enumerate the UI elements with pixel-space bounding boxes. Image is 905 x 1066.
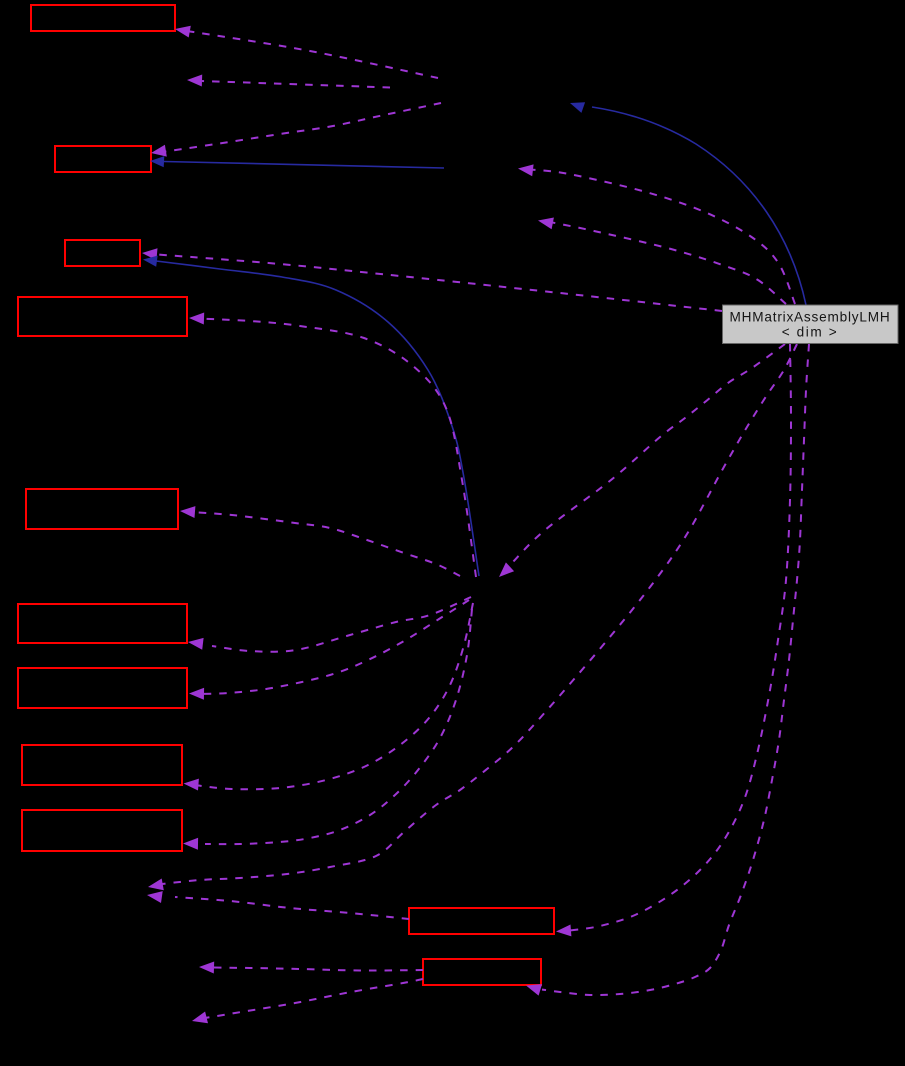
edge to B6: [188, 597, 471, 652]
edge to hidden node LA2: [147, 891, 409, 919]
node box B10: [409, 908, 554, 934]
edge to B4: [189, 313, 476, 578]
edge to B5: [180, 506, 460, 576]
svg-text:MHMatrixAssemblyLMH: MHMatrixAssemblyLMH: [730, 310, 891, 325]
edge to B2 dashed: [151, 103, 441, 157]
edge to B7: [189, 600, 469, 700]
node box B2: [55, 146, 151, 172]
edge to B10: [556, 344, 791, 936]
edge to hidden node U2: [538, 218, 786, 305]
edge to B2 solid: [150, 156, 444, 168]
node box B1: [31, 5, 175, 31]
node box B7: [18, 668, 187, 708]
edge to hub node: [499, 344, 785, 577]
node box B11: [423, 959, 541, 985]
main node MHMatrixAssemblyLMH: [723, 305, 899, 344]
edge to hidden node U1: [518, 164, 795, 304]
node box B8: [22, 745, 182, 785]
node box B4: [18, 297, 187, 336]
edge to B3 dashed: [142, 248, 722, 311]
edge to hidden base node: [570, 102, 806, 305]
node box B3: [65, 240, 140, 266]
edge to B11: [526, 344, 809, 996]
edge to hidden node LB1: [199, 962, 423, 974]
node box B6: [18, 604, 187, 643]
svg-text:< dim >: < dim >: [782, 325, 839, 340]
edge to B9: [183, 609, 472, 850]
edge to hidden node LA1: [148, 344, 797, 890]
node box B9: [22, 810, 182, 851]
edge to B8: [184, 603, 474, 791]
edge to hidden node A: [187, 75, 390, 88]
edge to B3 solid: [143, 256, 479, 576]
node box B5: [26, 489, 178, 529]
edge to B1: [175, 26, 438, 78]
edge from B11 to bottom hidden node: [192, 979, 423, 1023]
